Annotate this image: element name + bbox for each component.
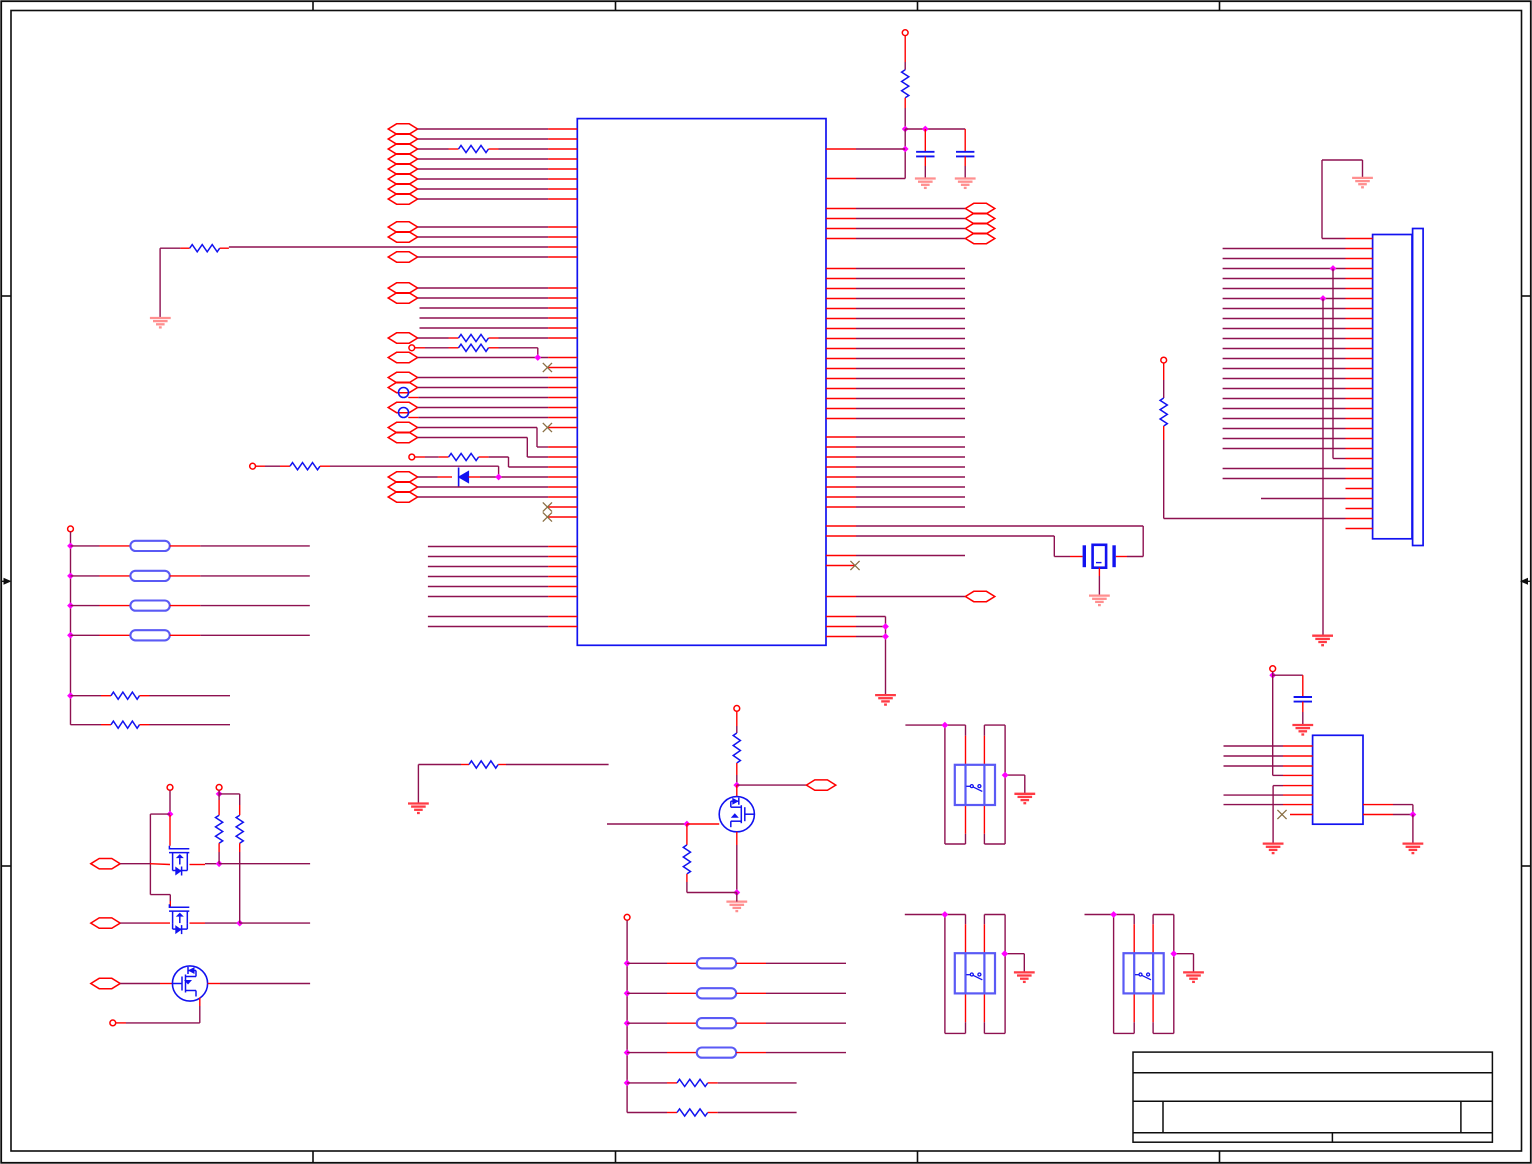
- fuse lead: [100, 605, 131, 607]
- IC U1 left pin: [548, 236, 577, 238]
- IC U1 left pin: [548, 287, 577, 289]
- wire branch: [239, 794, 241, 805]
- wire red lead: [280, 465, 290, 467]
- resistor lead: [461, 764, 469, 766]
- wire red lead: [469, 476, 480, 478]
- IC U1 right pin: [826, 466, 856, 468]
- wire bus net: [428, 576, 548, 578]
- port: [965, 223, 994, 233]
- wire: [687, 892, 737, 894]
- junction: [1330, 265, 1337, 272]
- IC U1 left pin: [548, 446, 577, 448]
- wire red lead: [438, 476, 453, 478]
- IC U1 left pin: [548, 476, 577, 478]
- crystal Y1: [1084, 545, 1114, 568]
- wire bus net: [428, 556, 548, 558]
- IC U1 right pin: [826, 596, 856, 598]
- wire branch: [150, 813, 170, 815]
- IC U1 left pin: [548, 486, 577, 488]
- wire net: [1224, 804, 1284, 806]
- wire jog down: [526, 438, 528, 458]
- port port: [388, 124, 417, 134]
- junction: [624, 990, 631, 997]
- wire red lead: [439, 456, 449, 458]
- resistor lead: [686, 824, 688, 845]
- junction: [216, 791, 223, 798]
- wire stub net: [420, 307, 549, 309]
- wire: [1164, 518, 1346, 520]
- IC U2 left pin: [1283, 804, 1313, 806]
- IC U1 right pin: [826, 535, 856, 537]
- IC U1 right pin: [826, 178, 856, 180]
- fuse lead: [100, 634, 131, 636]
- wire: [1272, 672, 1274, 776]
- port port: [388, 164, 417, 174]
- IC U2 left pin: [1283, 765, 1313, 767]
- junction: [624, 1020, 631, 1027]
- wire pin526: [856, 525, 1143, 527]
- wire red lead: [983, 805, 985, 834]
- border zone tick top: [1219, 1, 1221, 10]
- connector J1 pin: [1346, 488, 1373, 490]
- wire: [904, 62, 906, 70]
- wire net stub: [856, 388, 965, 390]
- resistor R-lm2: [111, 721, 140, 728]
- wire to J1: [1223, 268, 1346, 270]
- wire red lead: [965, 993, 967, 1022]
- IC U1 right pin: [826, 436, 856, 438]
- ground Q1: [726, 902, 747, 912]
- ground topleft: [150, 318, 171, 327]
- IC U1 left pin: [548, 626, 577, 628]
- junction: [624, 960, 631, 967]
- border zone tick top: [312, 1, 314, 10]
- wire: [856, 208, 965, 210]
- IC U1 left pin: [548, 427, 577, 429]
- IC U2 body: [1313, 735, 1363, 824]
- IC U1 left pin: [548, 178, 577, 180]
- wire: [200, 605, 309, 607]
- wire node: [905, 128, 965, 130]
- wire: [120, 983, 160, 985]
- fuse lead: [170, 605, 201, 607]
- wire: [499, 148, 549, 150]
- wire net stub: [856, 278, 965, 280]
- junction: [67, 602, 74, 609]
- wire red lead: [190, 864, 206, 866]
- IC U2 left pin: [1290, 814, 1313, 816]
- IC U2 left pin: [1283, 785, 1313, 787]
- wire net stub: [856, 298, 965, 300]
- border zone tick left: [1, 295, 11, 297]
- IC U1 left pin: [548, 586, 577, 588]
- wire bus net: [428, 626, 548, 628]
- wire: [418, 297, 548, 299]
- wire to J1: [1223, 378, 1346, 380]
- IC U1 left pin: [548, 466, 577, 468]
- connector J1 pin: [1346, 328, 1373, 330]
- wire to J1: [1223, 288, 1346, 290]
- wire red lead: [1163, 426, 1165, 440]
- wire red lead: [904, 36, 906, 62]
- IC U2 left pin: [1283, 774, 1313, 776]
- wire: [1054, 556, 1070, 558]
- wire riser: [626, 920, 628, 1112]
- wire red lead: [1163, 363, 1165, 380]
- wire red lead: [408, 417, 418, 419]
- wire gate: [607, 823, 687, 825]
- wire: [965, 834, 967, 844]
- wire: [924, 166, 926, 179]
- wire: [627, 1052, 667, 1054]
- IC U1 right pin: [826, 278, 856, 280]
- junction: [216, 860, 223, 867]
- wire: [1004, 915, 1006, 1034]
- IC U1 right pin: [826, 486, 856, 488]
- fuse lead: [736, 1052, 766, 1054]
- terminal Q-top: [734, 706, 740, 712]
- connector J1 body: [1373, 235, 1412, 539]
- relay K body: [1124, 953, 1164, 993]
- wire: [627, 1112, 667, 1114]
- ground riser B: [1312, 636, 1333, 646]
- crystal gnd lead: [1098, 568, 1100, 576]
- wire net stub: [856, 308, 965, 310]
- IC U1 left pin: [548, 138, 577, 140]
- resistor R-topleft: [190, 245, 220, 252]
- junction: [167, 811, 174, 818]
- wire: [169, 790, 171, 814]
- IC U1 right pin: [826, 418, 856, 420]
- wire pin179: [856, 178, 905, 180]
- wire: [418, 168, 548, 170]
- wire: [627, 992, 667, 994]
- port port: [388, 252, 417, 262]
- wire: [71, 724, 102, 726]
- connector J1 pin: [1346, 478, 1373, 480]
- IC U1 right pin: [826, 565, 855, 567]
- wire: [418, 138, 548, 140]
- wire: [150, 695, 231, 697]
- wire: [983, 915, 985, 925]
- terminal: [624, 914, 630, 920]
- resistor R-gate: [683, 845, 690, 874]
- wire red lead: [208, 983, 220, 985]
- IC U1 left pin: [548, 616, 577, 618]
- wire to pin4: [1273, 774, 1283, 776]
- resistor lead: [101, 724, 111, 726]
- wire: [239, 852, 241, 923]
- wire: [240, 922, 310, 924]
- relay K body: [955, 765, 995, 805]
- wire: [964, 166, 966, 179]
- IC U1 left pin: [548, 307, 577, 309]
- IC U1 right pin: [826, 288, 856, 290]
- wire: [627, 962, 667, 964]
- capacitor C3 lead: [1302, 675, 1304, 697]
- wire red lead: [150, 922, 170, 924]
- resistor lead: [686, 874, 688, 882]
- wire branch: [169, 895, 171, 901]
- wire net stub: [856, 348, 965, 350]
- wire: [1393, 814, 1413, 816]
- wire pin5: [1273, 785, 1283, 787]
- IC U1 right pin: [826, 408, 856, 410]
- wire riser A: [1332, 269, 1334, 459]
- wire: [418, 427, 537, 429]
- wire net: [1224, 765, 1284, 767]
- wire net stub: [856, 328, 965, 330]
- fuse lead: [667, 1052, 697, 1054]
- port port: [388, 402, 417, 412]
- wire pin616: [856, 616, 886, 618]
- wire: [418, 287, 548, 289]
- fuse lead: [736, 992, 766, 994]
- connector J1 pin: [1346, 518, 1373, 520]
- resistor lead: [140, 724, 150, 726]
- wire: [160, 247, 180, 249]
- wire: [425, 347, 449, 349]
- wire: [418, 486, 548, 488]
- wire gnd tap: [1005, 774, 1025, 776]
- junction: [882, 633, 889, 640]
- wire red lead: [190, 922, 206, 924]
- IC U1 left pin: [548, 317, 577, 319]
- fuse/bead F: [697, 1018, 736, 1028]
- wire red lead: [449, 347, 459, 349]
- capacitor C1 lead: [924, 129, 926, 152]
- IC U1 right pin: [826, 476, 856, 478]
- ground K3: [1183, 972, 1204, 982]
- wire: [1173, 915, 1175, 1034]
- fuse lead: [736, 962, 766, 964]
- fuse lead: [667, 1022, 697, 1024]
- wire red lead: [408, 397, 418, 399]
- wire: [1163, 380, 1165, 398]
- IC U1 right pin: [826, 238, 856, 240]
- fuse lead: [170, 545, 201, 547]
- no-connect X: [850, 561, 859, 570]
- wire: [71, 605, 100, 607]
- wire red lead: [489, 148, 499, 150]
- wire gnd feed top: [1322, 159, 1363, 161]
- wire red lead: [449, 337, 459, 339]
- junction: [882, 623, 889, 630]
- wire: [1133, 915, 1135, 925]
- wire red lead: [736, 711, 738, 726]
- port row1: [91, 859, 120, 869]
- IC U1 right pin: [826, 318, 856, 320]
- no-connect X: [543, 423, 552, 432]
- wire: [766, 962, 846, 964]
- IC U2 left pin: [1283, 745, 1313, 747]
- border zone tick top: [917, 1, 919, 10]
- wire: [418, 476, 438, 478]
- wire: [418, 437, 528, 439]
- port port: [388, 194, 417, 204]
- IC U1 left pin: [548, 417, 577, 419]
- wire to J1: [1223, 308, 1346, 310]
- port: [388, 432, 417, 442]
- connector J1 pin: [1346, 528, 1373, 530]
- connector J1 pin: [1346, 388, 1373, 390]
- wire net stub: [856, 476, 965, 478]
- port port: [388, 174, 417, 184]
- wire: [71, 634, 100, 636]
- terminal T3: [110, 1020, 116, 1026]
- wire net stub: [856, 436, 965, 438]
- IC U1 left pin: [548, 367, 577, 369]
- port row3: [91, 978, 120, 988]
- wire: [205, 863, 219, 865]
- no-connect X: [543, 502, 552, 511]
- resistor lead: [239, 805, 241, 815]
- wire to J1: [1223, 348, 1346, 350]
- wire: [945, 843, 966, 845]
- IC U1 left pin: [548, 246, 577, 248]
- wire red lead: [904, 98, 906, 108]
- wire: [945, 1032, 966, 1034]
- transistor M3: [172, 966, 207, 1001]
- wire net stub: [856, 408, 965, 410]
- IC U1 right pin: [826, 368, 856, 370]
- terminal pin: [250, 463, 256, 469]
- terminal: [68, 526, 74, 532]
- wire: [965, 1022, 967, 1033]
- wire to J1: [1261, 498, 1346, 500]
- wire: [418, 158, 548, 160]
- fuse lead: [736, 1022, 766, 1024]
- resistor R-pullup: [902, 70, 909, 98]
- wire red lead: [1152, 924, 1154, 953]
- wire: [418, 387, 548, 389]
- wire branch: [150, 894, 170, 896]
- wire branch: [219, 793, 240, 795]
- junction: [942, 911, 949, 918]
- wire: [418, 357, 548, 359]
- wire: [418, 337, 449, 339]
- wire: [1098, 576, 1100, 596]
- IC U2 right pin: [1363, 804, 1393, 806]
- fuse lead: [100, 575, 131, 577]
- IC U1 right pin: [826, 456, 856, 458]
- wire red lead: [150, 863, 170, 866]
- resistor R-drain: [733, 733, 740, 763]
- wire: [425, 456, 439, 458]
- wire to J1: [1223, 418, 1346, 420]
- wire red lead: [489, 337, 499, 339]
- wire: [418, 178, 548, 180]
- wire gnd feed: [1321, 160, 1323, 239]
- resistor R-bc1: [677, 1079, 708, 1086]
- wire bus net: [428, 546, 548, 548]
- IC U1 left pin: [548, 576, 577, 578]
- capacitor C2: [956, 152, 974, 157]
- wire red lead: [965, 805, 967, 834]
- wire bus net: [428, 586, 548, 588]
- port port: [388, 492, 417, 502]
- connector J1 pin: [1346, 468, 1373, 470]
- wire: [150, 724, 231, 726]
- wire to J1: [1223, 438, 1346, 440]
- wire: [218, 852, 220, 864]
- gate lead M2: [169, 901, 171, 907]
- wire to J1: [1223, 408, 1346, 410]
- wire: [200, 634, 309, 636]
- wire bus net: [428, 596, 548, 598]
- wire net: [1224, 745, 1284, 747]
- IC U1 left pin: [548, 377, 577, 379]
- wire to J1: [1223, 258, 1346, 260]
- wire to J1: [1223, 478, 1346, 480]
- connector J1 pin: [1346, 398, 1373, 400]
- wire: [506, 764, 609, 766]
- wire: [418, 407, 548, 409]
- connector J1 pin: [1346, 428, 1373, 430]
- port: [965, 591, 994, 601]
- port port: [388, 372, 417, 382]
- wire gnd tap: [1174, 953, 1194, 955]
- IC U1 right pin: [826, 228, 856, 230]
- wire: [1133, 1022, 1135, 1033]
- wire to J1: [1223, 368, 1346, 370]
- fuse/bead F: [130, 601, 169, 611]
- wire to J1: [1223, 278, 1346, 280]
- port port: [388, 283, 417, 293]
- wire red lead: [965, 924, 967, 953]
- wire: [120, 922, 150, 924]
- wire jog down: [537, 348, 539, 358]
- connector J1 pin: [1346, 288, 1373, 290]
- wire: [766, 1022, 846, 1024]
- wire: [718, 1112, 797, 1114]
- resistor lead: [708, 1112, 718, 1114]
- wire: [1302, 712, 1304, 725]
- border zone tick bottom: [917, 1151, 919, 1163]
- connector J1 pin: [1346, 298, 1373, 300]
- wire relay feed: [905, 914, 966, 916]
- IC U1 left pin: [548, 556, 577, 558]
- wire: [944, 725, 946, 844]
- no-ERC marker: [399, 388, 409, 398]
- terminal U2-V: [1270, 666, 1276, 672]
- IC U1 right pin: [826, 506, 856, 508]
- IC U1 left pin: [548, 397, 577, 399]
- junction: [1002, 772, 1009, 779]
- ground J1 top: [1352, 178, 1373, 187]
- port port: [388, 184, 417, 194]
- wire: [265, 465, 280, 467]
- ground K2: [1014, 972, 1035, 982]
- terminal T1: [167, 785, 173, 791]
- resistor R-row348: [459, 344, 489, 351]
- IC U1 right pin: [826, 626, 856, 628]
- connector J1 pin: [1346, 308, 1373, 310]
- wire: [766, 992, 846, 994]
- resistor lead: [498, 764, 506, 766]
- junction: [534, 354, 541, 361]
- IC U1 left pin: [548, 456, 577, 458]
- wire: [418, 764, 461, 766]
- connector J1 pin: [1346, 458, 1373, 460]
- wire: [1412, 815, 1414, 844]
- junction: [902, 126, 909, 133]
- wire: [944, 915, 946, 1034]
- IC U1 right pin: [826, 555, 856, 557]
- connector J1 pin: [1346, 278, 1373, 280]
- no-connect X: [1277, 810, 1286, 819]
- wire: [718, 1082, 797, 1084]
